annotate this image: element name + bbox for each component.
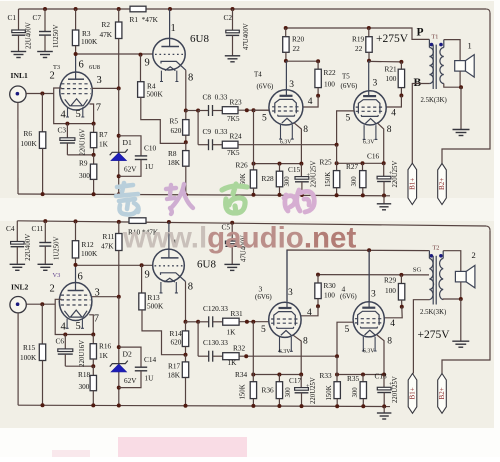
svg-text:R31: R31	[231, 309, 244, 318]
node pin8 junction bottom	[184, 320, 188, 324]
T4 internals	[280, 95, 293, 97]
wire ground rail top half	[18, 194, 390, 196]
svg-text:6: 6	[78, 272, 83, 283]
svg-text:T5: T5	[342, 73, 350, 81]
svg-text:R34: R34	[235, 370, 248, 379]
resistor R34	[252, 322, 254, 375]
node D1 top	[117, 134, 121, 138]
node R6 top	[40, 92, 44, 96]
watermark char 3	[222, 184, 247, 213]
svg-text:4: 4	[61, 110, 67, 121]
svg-text:8: 8	[387, 125, 392, 135]
svg-text:8: 8	[188, 281, 193, 292]
T4 plate	[285, 61, 287, 96]
svg-text:(6V6): (6V6)	[255, 293, 272, 301]
node rail R6	[41, 192, 45, 196]
node rail R28	[278, 193, 282, 197]
svg-text:62V: 62V	[124, 377, 137, 385]
resistor R17	[185, 355, 187, 362]
resistor R35	[362, 375, 364, 382]
svg-text:R23: R23	[230, 98, 243, 107]
svg-text:R33: R33	[320, 371, 333, 380]
svg-text:3: 3	[97, 75, 102, 86]
Va plate	[286, 250, 288, 308]
wire R4 staircase to R5 bottom	[141, 97, 186, 143]
node brail C17	[300, 404, 304, 408]
T5 plate	[368, 61, 370, 96]
svg-text:P: P	[417, 27, 424, 39]
svg-text:C11: C11	[32, 224, 44, 233]
wire V3 plate row pin 3	[92, 296, 119, 298]
node C15 top	[299, 162, 303, 166]
Va internals	[279, 307, 292, 309]
svg-text:R21: R21	[385, 65, 398, 74]
node C13 row junction	[244, 354, 248, 358]
wire +275V rail top	[286, 28, 430, 39]
svg-text:300: 300	[79, 171, 90, 180]
svg-text:R5: R5	[170, 116, 179, 125]
wire Va cathode drop pin 8	[293, 335, 301, 374]
svg-text:3: 3	[371, 290, 376, 300]
resistor R26	[253, 110, 255, 163]
V3 plate pin 6	[75, 265, 77, 291]
wire bottom pentode pin 8 drop	[185, 282, 187, 322]
wire Vb cathode drop pin 8	[377, 335, 384, 375]
svg-text:6U8: 6U8	[89, 64, 100, 71]
svg-text:47K: 47K	[101, 242, 114, 251]
svg-text:C18: C18	[375, 371, 388, 380]
resistor R33	[336, 356, 338, 374]
resistor R24	[222, 141, 238, 148]
node grid1 junctions	[245, 108, 249, 112]
wire Vb grid entry	[337, 322, 353, 356]
resistor R30	[317, 275, 319, 283]
svg-text:100: 100	[324, 291, 335, 300]
wire triode plate row pin 3	[92, 87, 119, 89]
wire pin 7 to cathode node	[90, 104, 94, 124]
wire pentode grid row bottom pin 9	[76, 264, 153, 266]
wire plate to R21	[369, 60, 401, 63]
svg-text:T1: T1	[432, 34, 439, 41]
resistor R32	[223, 353, 239, 360]
svg-text:C4: C4	[6, 224, 15, 233]
wire jack ground leg bottom	[17, 313, 19, 405]
svg-text:22: 22	[293, 44, 301, 53]
Vb internals	[362, 307, 375, 309]
node R5 bottom	[184, 140, 188, 144]
resistor R2	[117, 7, 121, 11]
wire cathode row right bottom	[337, 374, 384, 376]
node R14 bottom	[184, 353, 188, 357]
svg-text:5: 5	[261, 325, 266, 335]
wire T1 secondary top to speaker	[444, 40, 460, 61]
svg-text:220U16V: 220U16V	[80, 129, 87, 156]
node pin8-R5 junction	[184, 109, 188, 113]
svg-text:100: 100	[385, 286, 396, 295]
node D1 bottom	[117, 174, 121, 178]
svg-text:3: 3	[289, 80, 294, 90]
node brail R36	[277, 404, 281, 408]
svg-text:9: 9	[145, 58, 150, 69]
node R13 top	[140, 263, 144, 267]
svg-text:R15: R15	[23, 343, 36, 352]
svg-text:150K: 150K	[240, 384, 247, 399]
svg-text:300: 300	[352, 387, 359, 398]
svg-text:B1+: B1+	[409, 178, 417, 190]
wire pentode pin 8 drop	[185, 70, 187, 110]
node R34 line	[251, 373, 255, 377]
ground symbol bottom rail	[383, 406, 385, 413]
svg-text:C7: C7	[33, 13, 42, 22]
svg-text:C16: C16	[367, 152, 380, 161]
svg-text:620: 620	[171, 126, 182, 135]
node pentode grid / R3	[74, 52, 78, 56]
node rail R25	[335, 193, 339, 197]
svg-text:6.3V: 6.3V	[279, 349, 291, 355]
resistor R8	[185, 142, 187, 150]
node R15 top	[40, 302, 44, 306]
svg-text:300: 300	[284, 176, 291, 187]
svg-text:5: 5	[76, 321, 81, 332]
node D2 top	[117, 345, 121, 349]
node R16 bottom	[91, 364, 95, 368]
svg-text:22U400V: 22U400V	[25, 234, 32, 261]
node pentode plate on rail	[168, 7, 172, 11]
resistor R31	[223, 318, 239, 325]
node C18 top	[382, 373, 386, 377]
node plate-R2 junction	[117, 86, 121, 90]
node rail R26	[252, 193, 256, 197]
svg-text:B1+: B1+	[409, 387, 417, 399]
svg-text:R29: R29	[384, 276, 397, 285]
triode T3 plate pin 6	[75, 54, 77, 79]
svg-text:6.3V: 6.3V	[280, 140, 292, 146]
resistor R9	[93, 155, 95, 164]
wire T2 secondary bottom	[443, 298, 461, 301]
svg-text:7K5: 7K5	[227, 114, 240, 123]
node R36 top	[277, 373, 281, 377]
wire speaker return to ground	[460, 87, 462, 129]
wire pin8 to coupling node bottom	[186, 321, 199, 323]
T5 internals	[363, 95, 376, 97]
wire B+ rail bottom	[17, 221, 486, 226]
wire cathode row right	[337, 162, 384, 164]
wire R22 to pin 4	[303, 96, 318, 107]
svg-text:150K: 150K	[326, 385, 333, 400]
svg-text:1: 1	[468, 41, 472, 51]
svg-text:R6: R6	[24, 129, 33, 138]
node R21 top	[399, 60, 403, 64]
svg-text:R32: R32	[233, 344, 246, 353]
svg-text:5: 5	[345, 325, 350, 335]
svg-text:1U: 1U	[145, 374, 155, 383]
wire grid-side bracket	[54, 88, 94, 124]
svg-text:C1: C1	[8, 13, 17, 22]
node rail C16	[382, 194, 386, 198]
wire R21 to pin 4	[386, 96, 401, 108]
svg-text:T2: T2	[433, 245, 440, 252]
svg-text:(6V6): (6V6)	[341, 82, 358, 90]
svg-text:B2+: B2+	[438, 178, 446, 190]
svg-text:C9 0.33: C9 0.33	[203, 127, 228, 136]
svg-text:R2: R2	[102, 20, 111, 29]
wire T2 secondary top to speaker	[443, 251, 461, 272]
svg-text:INL2: INL2	[11, 283, 29, 292]
wire R30 to pin 4	[301, 306, 318, 316]
svg-text:220U25V: 220U25V	[392, 376, 399, 403]
resistor R20	[285, 28, 287, 37]
node speaker return	[459, 85, 463, 89]
node R22 bottom	[317, 88, 319, 96]
capacitor C10	[119, 136, 141, 156]
triode T3 internals	[68, 78, 84, 80]
wire R13 staircase to R14 bottom	[142, 310, 186, 355]
svg-text:R1 *47K: R1 *47K	[130, 15, 159, 24]
svg-text:6U8: 6U8	[197, 259, 216, 271]
node rail R27	[361, 193, 365, 197]
svg-text:www.lgaudio.net: www.lgaudio.net	[122, 222, 356, 255]
wire V3 pin 7	[89, 315, 93, 335]
svg-text:22U400V: 22U400V	[25, 22, 32, 49]
svg-text:(6V6): (6V6)	[257, 82, 274, 90]
svg-text:4: 4	[307, 308, 312, 318]
svg-text:R17: R17	[168, 362, 181, 371]
pentode plate pin 1	[169, 9, 171, 47]
ground C1	[11, 52, 26, 58]
node coupling column top	[196, 109, 200, 113]
svg-text:6.3V: 6.3V	[363, 140, 375, 146]
svg-text:1U250V: 1U250V	[54, 236, 61, 260]
svg-text:500K: 500K	[147, 90, 164, 99]
svg-text:C17: C17	[289, 376, 302, 385]
wire coupling column	[197, 111, 199, 145]
svg-text:300: 300	[351, 176, 358, 187]
svg-text:620: 620	[171, 338, 182, 347]
connector lug B1+	[408, 163, 417, 204]
resistor R28	[279, 164, 281, 172]
T2 phase dots	[430, 254, 434, 258]
resistor R4	[140, 55, 142, 82]
watermark char 1	[116, 183, 139, 215]
node brail C18	[382, 404, 386, 408]
wire C6 bottom loop	[65, 365, 93, 367]
svg-text:R36: R36	[262, 386, 275, 395]
svg-text:SG: SG	[413, 266, 422, 273]
ground C5	[224, 264, 240, 270]
node R20 top	[284, 26, 288, 30]
wire B+ rail top	[19, 8, 487, 10]
svg-text:C120.33: C120.33	[203, 304, 228, 313]
capacitor C14	[119, 347, 141, 367]
T1 secondary	[443, 40, 445, 48]
node cathode junction	[92, 122, 96, 126]
node grid1 junctions bottom	[245, 320, 249, 324]
wire T5 grid entry	[337, 111, 354, 145]
svg-text:7K5: 7K5	[227, 148, 240, 157]
svg-text:62V: 62V	[124, 166, 137, 174]
node brail R18	[91, 403, 95, 407]
node R21 bottom	[400, 88, 402, 96]
svg-text:C130.33: C130.33	[203, 338, 228, 347]
svg-text:C15: C15	[288, 165, 301, 174]
wire R11 column down to zener D2	[118, 297, 120, 406]
svg-text:1K: 1K	[99, 140, 109, 149]
node brail R33	[335, 404, 339, 408]
svg-text:2: 2	[50, 284, 55, 295]
wire R2 column down to zener	[118, 88, 120, 194]
node R7 bottom	[92, 153, 96, 157]
svg-text:R35: R35	[347, 374, 360, 383]
svg-text:D1: D1	[123, 138, 132, 147]
svg-text:R30: R30	[324, 281, 337, 290]
svg-text:8: 8	[303, 337, 308, 347]
svg-text:R25: R25	[320, 157, 333, 166]
svg-text:R9: R9	[79, 159, 88, 168]
resistor R18	[92, 366, 94, 375]
svg-text:7: 7	[94, 314, 99, 325]
svg-text:7: 7	[96, 103, 101, 114]
wire cathode row left	[254, 163, 302, 165]
svg-text:100K: 100K	[21, 139, 38, 148]
node rail R9	[92, 192, 96, 196]
resistor R36	[278, 375, 280, 382]
resistor R11	[117, 220, 121, 224]
svg-text:C6: C6	[56, 337, 65, 346]
svg-text:5: 5	[262, 113, 267, 123]
svg-text:1U250V: 1U250V	[53, 24, 60, 48]
node brail D2	[117, 404, 121, 408]
svg-text:R26: R26	[236, 161, 249, 170]
node R35 top	[361, 373, 365, 377]
resistor R12	[74, 219, 78, 223]
node T4 plate junction	[284, 59, 288, 63]
svg-text:R18: R18	[78, 370, 91, 379]
svg-text:100K: 100K	[20, 353, 37, 362]
wire T1 secondary bottom	[444, 84, 461, 88]
svg-text:4: 4	[391, 109, 396, 119]
resistor R27	[362, 163, 364, 170]
svg-text:4: 4	[390, 319, 395, 329]
svg-text:1K: 1K	[227, 328, 237, 337]
node R27 top	[361, 161, 365, 165]
node C6 top	[63, 333, 67, 337]
wire T4 cathode drop pin 8	[294, 123, 301, 164]
wire cathode row left bottom	[253, 374, 301, 376]
svg-text:220U25V: 220U25V	[310, 377, 317, 404]
svg-text:R19: R19	[352, 35, 365, 44]
wire jack to grid	[26, 93, 54, 95]
watermark pink block	[118, 437, 247, 457]
svg-text:R24: R24	[230, 131, 243, 140]
svg-text:2: 2	[50, 71, 55, 82]
node bottom pentode plate on rail	[167, 220, 171, 224]
svg-text:1K: 1K	[228, 358, 238, 367]
ground symbol top rail	[383, 196, 385, 204]
wire coupling column bottom	[197, 322, 199, 356]
node R26 line	[252, 162, 256, 166]
connector lug B2+	[438, 163, 447, 204]
node speaker return bottom	[459, 297, 463, 301]
resistor R15	[41, 304, 43, 344]
svg-text:9: 9	[145, 269, 150, 280]
node brail R17	[184, 404, 188, 408]
node R19 top	[367, 26, 371, 30]
connector lug B2+ bottom	[438, 374, 447, 414]
svg-text:220U25V: 220U25V	[310, 161, 317, 188]
wire screen SG row	[318, 274, 429, 276]
wire jack to grid bottom	[26, 303, 55, 305]
svg-text:6U8: 6U8	[190, 33, 209, 45]
svg-text:1U: 1U	[145, 162, 155, 171]
resistor R21	[400, 62, 402, 69]
node rail C15	[300, 193, 304, 197]
bottom pentode internals	[161, 257, 179, 259]
wire T4 grid entry	[254, 109, 270, 111]
svg-text:47U400V: 47U400V	[243, 23, 250, 50]
wire T2 primary bottom to B1+	[413, 300, 429, 374]
ground C4	[10, 264, 26, 270]
wire ground rail bottom half	[18, 405, 390, 406]
ground speaker bottom	[452, 341, 469, 347]
T2 primary	[428, 250, 429, 252]
svg-text:C8 0.33: C8 0.33	[203, 93, 228, 102]
pentode internals	[161, 46, 179, 48]
node brail R15	[41, 403, 45, 407]
node rail D1	[117, 192, 121, 196]
svg-text:5: 5	[346, 113, 351, 123]
svg-text:C3: C3	[58, 126, 67, 135]
node brail R34	[251, 404, 255, 408]
node C17 top	[299, 373, 303, 377]
T1 core	[432, 45, 434, 89]
node R25 line	[335, 161, 339, 165]
node R33 line	[335, 373, 339, 377]
wire right border top half	[442, 13, 490, 163]
node R22 top	[316, 59, 320, 63]
wire jack ground leg	[17, 102, 19, 194]
svg-text:R20: R20	[292, 35, 305, 44]
svg-text:500K: 500K	[147, 302, 164, 311]
watermark char 2	[166, 184, 193, 214]
svg-text:+275V: +275V	[418, 329, 451, 341]
svg-text:(6V6): (6V6)	[340, 293, 357, 301]
resistor R25	[336, 145, 338, 164]
resistor R19	[368, 28, 370, 37]
Vb plate	[368, 250, 370, 308]
node rail R8	[184, 193, 188, 197]
svg-text:300: 300	[79, 382, 90, 391]
wire speaker return to ground bottom	[460, 299, 462, 341]
svg-text:R7: R7	[99, 130, 108, 139]
wire plate to R22	[286, 60, 318, 62]
node brail R35	[361, 404, 365, 408]
svg-text:1: 1	[171, 23, 176, 34]
svg-text:1K: 1K	[99, 351, 109, 360]
ground speaker top	[453, 130, 470, 136]
resistor R23	[222, 107, 238, 114]
svg-text:2.5K(3K): 2.5K(3K)	[420, 309, 446, 316]
wire T5 cathode drop pin 8	[378, 123, 384, 163]
ground C11	[38, 264, 54, 270]
node C3 top	[65, 122, 69, 126]
ground C2	[225, 56, 240, 62]
svg-text:220U25V: 220U25V	[392, 161, 399, 188]
svg-text:R12: R12	[82, 240, 95, 249]
svg-text:C10: C10	[144, 144, 157, 153]
svg-text:3: 3	[288, 288, 293, 298]
resistor R6	[41, 94, 43, 132]
svg-text:18K: 18K	[168, 371, 181, 380]
